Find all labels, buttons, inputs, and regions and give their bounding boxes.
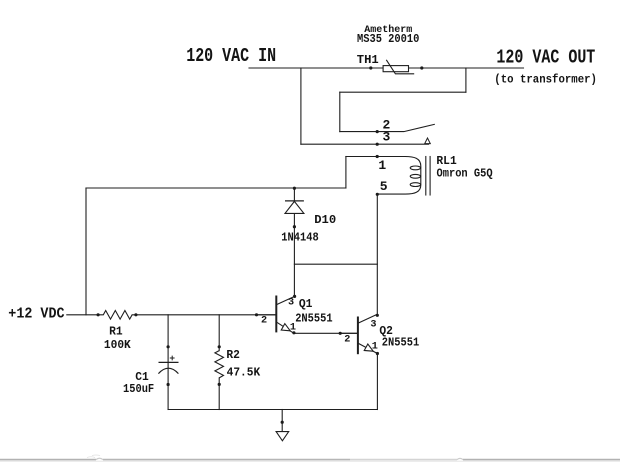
svg-text:100K: 100K — [104, 339, 131, 352]
wire return vertical to pin2 — [339, 92, 341, 131]
wire relay pin2 horizontal — [340, 131, 377, 133]
wire D10 anode down to Q1 collector — [293, 213, 295, 296]
wire C1 branch vertical — [167, 315, 169, 363]
relay core bar 1 — [425, 157, 427, 196]
junction and pin dots — [97, 66, 424, 423]
pin dot ground — [281, 421, 284, 424]
pin dot Q1 base — [255, 313, 258, 316]
pin dot relay 5 — [376, 193, 379, 196]
wire +12 rail horizontal — [86, 187, 346, 189]
pin dot R1 right — [134, 313, 137, 316]
transistor Q2 emitter arrow — [364, 344, 375, 354]
transistor Q1 emitter — [276, 322, 294, 333]
pin dot C1 top — [167, 345, 170, 348]
wire R2 bottom lead — [218, 378, 220, 410]
pin dot TH1 left — [369, 66, 372, 69]
svg-text:+12 VDC: +12 VDC — [8, 306, 65, 323]
bottom page strip — [0, 455, 620, 462]
thermistor TH1 body — [383, 66, 408, 72]
resistor R1 zigzag — [98, 311, 136, 320]
wire relay pin1 horizontal — [346, 156, 406, 158]
relay contact fixed-point triangle — [425, 138, 431, 144]
svg-text:(to transformer): (to transformer) — [494, 74, 597, 87]
wire OUT return vertical — [465, 68, 467, 92]
pin dot Q1 emitter — [292, 331, 295, 334]
transistor Q1 base lead — [257, 314, 277, 316]
capacitor C1 inner lead — [167, 362, 169, 368]
transistor Q2 base lead — [340, 332, 358, 334]
svg-text:2: 2 — [261, 315, 267, 326]
svg-text:1: 1 — [378, 158, 386, 173]
svg-text:D10: D10 — [314, 213, 336, 227]
diode D10 cathode bar — [285, 200, 304, 202]
ground symbol triangle — [276, 432, 289, 441]
thermistor TH1 diagonal — [386, 60, 414, 74]
pin dot R2 bottom — [218, 383, 221, 386]
wire R1 right to Q1 base — [136, 314, 276, 316]
pin dot R2 top — [218, 345, 221, 348]
wire +12 VDC lead to Q1 base — [67, 314, 98, 316]
pin dot C1 bottom — [167, 383, 170, 386]
transistor Q1 base bar — [275, 296, 277, 333]
svg-text:1: 1 — [290, 323, 296, 334]
wire 120 VAC IN to OUT (top) — [249, 67, 524, 69]
wire OUT return horizontal — [340, 91, 466, 93]
svg-text:2N5551: 2N5551 — [295, 313, 333, 326]
svg-text:Q2: Q2 — [379, 325, 393, 338]
wire Q1 emitter to Q2 base — [294, 332, 358, 334]
pin dot relay 1 — [376, 155, 379, 158]
svg-text:150uF: 150uF — [123, 383, 154, 396]
wire ground stem — [281, 410, 283, 432]
svg-text:120 VAC IN: 120 VAC IN — [186, 47, 276, 68]
wire vertical from top wire to relay pin3 — [300, 68, 302, 144]
pin dot R1 left — [97, 313, 100, 316]
wire relay pin3 horizontal — [301, 143, 429, 145]
svg-text:3: 3 — [383, 130, 391, 145]
relay RL1 coil outline — [377, 157, 420, 195]
pin dot contact 3 — [376, 143, 379, 146]
svg-text:TH1: TH1 — [357, 53, 379, 67]
svg-text:R2: R2 — [226, 349, 240, 362]
transistor Q2 base bar — [357, 317, 359, 355]
svg-text:Omron G5Q: Omron G5Q — [437, 168, 493, 181]
svg-text:R1: R1 — [109, 325, 123, 338]
resistor R2 zigzag — [215, 351, 224, 378]
wire +12 rail left vertical — [85, 188, 87, 315]
svg-text:2: 2 — [344, 335, 350, 346]
wire bottom rail — [168, 409, 377, 411]
svg-text:3: 3 — [288, 297, 294, 308]
transistor Q1 emitter arrow — [281, 324, 292, 334]
pin dot Q2 collector — [376, 314, 379, 317]
svg-text:5: 5 — [380, 179, 388, 194]
diode D10 triangle — [285, 201, 304, 213]
wire C1 bottom lead — [167, 369, 169, 410]
svg-text:1N4148: 1N4148 — [281, 232, 318, 245]
pin dot Q2 emitter — [376, 352, 379, 355]
svg-text:C1: C1 — [135, 371, 149, 384]
wire up to relay pin1 — [345, 157, 347, 189]
pin dot Q2 base — [339, 332, 342, 335]
capacitor C1 plus sign — [170, 356, 175, 361]
svg-text:120 VAC OUT: 120 VAC OUT — [496, 48, 595, 69]
pin dot contact 2 — [376, 130, 379, 133]
relay coil loop 3 — [410, 183, 420, 187]
wire R2 branch vertical top — [218, 315, 220, 351]
svg-text:47.5K: 47.5K — [227, 366, 261, 379]
svg-text:3: 3 — [370, 320, 376, 331]
svg-text:Q1: Q1 — [299, 298, 313, 311]
wire Q2 emitter down to rail — [376, 354, 378, 410]
capacitor C1 top plate — [159, 361, 179, 363]
wire relay pin5 down to D10 node and Q2 collector — [376, 194, 378, 314]
relay contact arm — [377, 124, 434, 131]
capacitor C1 curved plate — [158, 368, 178, 373]
relay core bar 2 — [429, 157, 431, 196]
pin dot D10 anode — [293, 225, 296, 228]
svg-text:1: 1 — [372, 341, 378, 352]
transistor Q2 emitter — [358, 343, 378, 353]
wire D10 cathode lead — [293, 188, 295, 201]
svg-text:RL1: RL1 — [436, 155, 456, 168]
relay coil loop 1 — [410, 166, 420, 170]
transistor Q2 collector — [358, 314, 377, 323]
pin dot TH1 right — [420, 66, 423, 69]
wire D10 node horizontal — [294, 263, 377, 265]
junction dot D10 cathode — [293, 187, 296, 190]
relay coil loop 2 — [410, 174, 420, 178]
svg-text:2N5551: 2N5551 — [382, 337, 420, 350]
svg-text:MS35 20010: MS35 20010 — [357, 34, 419, 47]
transistor Q1 collector — [276, 296, 294, 304]
pin dot Q1 collector — [293, 295, 296, 298]
